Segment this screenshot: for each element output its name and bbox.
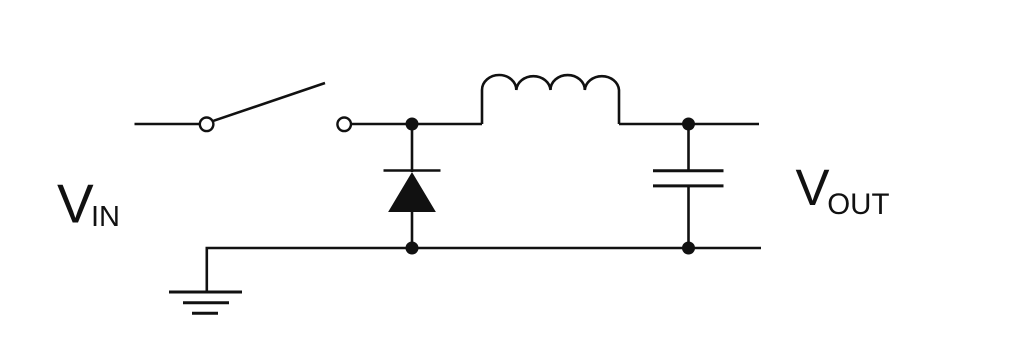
- svg-text:OUT: OUT: [827, 188, 889, 221]
- svg-text:V: V: [796, 159, 830, 216]
- svg-text:IN: IN: [91, 201, 120, 233]
- svg-text:V: V: [57, 173, 94, 235]
